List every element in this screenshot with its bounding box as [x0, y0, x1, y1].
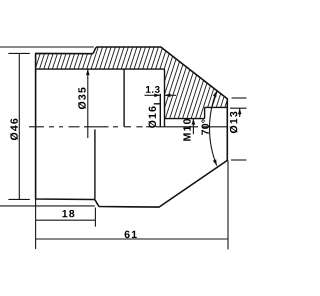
extension line Ø13 top — [230, 107, 247, 109]
arrowhead Ø13 — [238, 108, 242, 114]
dimension line Ø46 — [18, 53, 20, 199]
label 61 — [125, 231, 137, 238]
bore wall line — [36, 68, 165, 70]
tip counterbore step — [204, 107, 206, 118]
extension line top (hex OD) — [0, 46, 94, 48]
extension line Ø13 bottom — [231, 159, 247, 161]
arrowhead 1.3 left — [154, 94, 160, 98]
centerline — [29, 126, 227, 128]
extension line tip corner — [232, 97, 247, 99]
tick bottom — [8, 198, 29, 200]
label Ø13 — [230, 112, 238, 133]
dimension line Ø13 — [239, 108, 241, 117]
dimension line 18 — [36, 219, 96, 221]
leader 1.3 right — [165, 94, 177, 96]
dimension 1.3 — [145, 94, 177, 96]
arrowhead 70° top — [213, 91, 217, 97]
label Ø46 — [10, 119, 18, 140]
arrowhead 70° bottom — [213, 159, 217, 165]
label M10 — [183, 119, 190, 141]
dimension Ø46 — [0, 47, 95, 206]
leader 1.3 left — [145, 94, 161, 96]
seat face — [159, 94, 161, 127]
thread bore wall M10 — [165, 118, 205, 120]
dimension line 61 — [36, 238, 228, 240]
section hatching — [5, 40, 259, 135]
dimension M10 leader — [192, 119, 194, 135]
extension line tip face — [227, 160, 229, 249]
extension line shoulder — [94, 208, 96, 227]
tick top — [8, 52, 29, 54]
counterbore end face — [123, 69, 125, 127]
label Ø16 — [148, 106, 156, 127]
dimension 61 — [36, 160, 228, 249]
shoulder silhouette line bottom half — [94, 129, 96, 199]
extension line bottom (hex OD) — [0, 205, 95, 207]
seat line — [154, 103, 161, 105]
label 1.3 — [146, 86, 160, 93]
label 70° — [201, 119, 208, 134]
label 18 — [62, 210, 74, 217]
dimension 18 — [36, 208, 96, 227]
arrowhead 1.3 right — [165, 94, 171, 98]
thread start face — [164, 69, 166, 127]
dimension Ø13 — [230, 98, 247, 160]
dimension Ø35 — [87, 69, 89, 138]
dimension 70° arc — [210, 91, 217, 166]
extension line left face — [35, 199, 37, 249]
arrowhead Ø35 — [86, 69, 90, 75]
tip bore wall — [205, 106, 228, 108]
label Ø35 — [78, 88, 86, 110]
part outline — [36, 47, 228, 207]
internal bore lines (half section, top) — [36, 69, 228, 199]
arrowhead M10 — [192, 119, 196, 125]
